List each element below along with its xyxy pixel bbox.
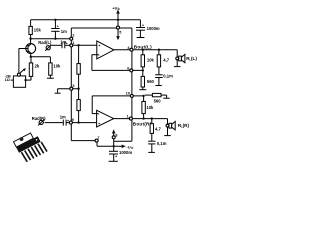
svg-text:b: b: [118, 7, 120, 11]
svg-text:9: 9: [72, 118, 74, 122]
ground (emitter resistor): [47, 77, 54, 79]
node collector line: [29, 38, 31, 40]
ground (zobel L): [155, 85, 161, 87]
svg-text:8: 8: [115, 133, 117, 137]
connector input L: [46, 46, 50, 50]
resistor 4,7 (zobel L): [158, 49, 160, 51]
wire supply branch left: [71, 27, 116, 29]
connector input R: [39, 120, 43, 124]
svg-text:-U: -U: [127, 146, 131, 150]
wire output R rail: [114, 118, 168, 120]
svg-text:2: 2: [72, 34, 74, 38]
IC package illustration: [14, 133, 48, 162]
svg-text:0,1m: 0,1m: [163, 73, 173, 78]
svg-text:7: 7: [97, 136, 99, 140]
ground (560 L): [139, 89, 146, 91]
svg-text:15k: 15k: [34, 27, 42, 32]
capacitor 1000m (bottom electrolytic): [113, 146, 115, 151]
resistor 10k (feedback L): [142, 49, 144, 51]
svg-text:1m: 1m: [60, 115, 66, 120]
svg-text:0,1m: 0,1m: [157, 141, 167, 146]
svg-text:3: 3: [72, 84, 74, 88]
ground (speaker L): [174, 66, 181, 68]
wire input L: [51, 44, 62, 46]
svg-text:560: 560: [147, 79, 155, 84]
wire left bus bottom: [71, 140, 95, 142]
wire input to op-amp 2: [72, 122, 98, 124]
capacitor 1m (rail decoupling electrolytic): [54, 19, 56, 21]
capacitor 1000m (top electrolytic): [139, 20, 141, 28]
supply arrow down (op-amp 1): [117, 29, 119, 37]
resistor 2k: [30, 57, 32, 63]
pin 4: [130, 48, 133, 51]
supply arrow up (op-amp 2) pin 8: [112, 129, 116, 133]
resistor bias lower: [77, 100, 80, 111]
wire -Ub line: [97, 145, 122, 147]
pin 1: [70, 44, 73, 47]
resistor 560 (feedback R horizontal): [142, 95, 144, 97]
pin 6: [130, 69, 133, 72]
wire +Ub top rail: [31, 19, 141, 21]
svg-text:Rad(L): Rad(L): [38, 40, 52, 45]
svg-text:1000m: 1000m: [119, 150, 132, 155]
ground (speaker R): [164, 135, 171, 137]
node emitter junction: [30, 56, 32, 58]
capacitor 0,1m (zobel R): [148, 140, 155, 142]
capacitor 1m (input R coupling): [62, 120, 64, 126]
wire op-amp2 feedback loop: [92, 113, 98, 115]
op-amp A1: [97, 41, 114, 59]
pin 10: [130, 94, 133, 97]
pin 5 supply terminal: [117, 20, 119, 26]
resistor 4,7 (zobel R): [151, 117, 153, 119]
potentiometer P1 (preset box): [18, 49, 20, 74]
svg-text:1000m: 1000m: [147, 26, 160, 31]
svg-text:(L): (L): [191, 56, 197, 61]
svg-text:5: 5: [119, 31, 121, 35]
svg-text:4,7: 4,7: [163, 58, 169, 63]
svg-text:4,7: 4,7: [155, 126, 161, 131]
svg-text:1m: 1m: [61, 29, 67, 34]
svg-text:(R): (R): [183, 123, 190, 128]
pin 11: [129, 117, 132, 120]
ground (560 R): [163, 97, 169, 99]
svg-text:1: 1: [127, 114, 129, 118]
ground (bottom electrolytic): [109, 160, 118, 162]
svg-text:6: 6: [127, 67, 129, 71]
ground (pin 3): [55, 92, 61, 94]
loudspeaker RL(L): [176, 50, 178, 67]
svg-text:10k: 10k: [146, 105, 154, 110]
svg-text:1m: 1m: [60, 40, 66, 45]
svg-text:2k: 2k: [35, 63, 40, 68]
wire output L rail: [114, 49, 177, 51]
wire op-amp1 feedback loop: [92, 54, 99, 56]
pin 7: [95, 139, 98, 142]
resistor bias upper: [78, 45, 80, 63]
svg-text:1Ω: 1Ω: [5, 78, 10, 82]
wire left bus vertical: [70, 28, 72, 141]
loudspeaker RL(R): [167, 119, 169, 136]
wire input to op-amp 1: [73, 44, 99, 46]
svg-text:10k: 10k: [147, 57, 155, 62]
ground (zobel R): [148, 151, 155, 153]
pin 3 ground wire: [58, 88, 79, 90]
wire input R: [45, 122, 64, 124]
svg-text:1: 1: [72, 41, 74, 45]
resistor 10k (feedback R): [143, 96, 145, 102]
node +Ub arrow: [117, 19, 119, 21]
resistor 10k (emitter load): [49, 57, 51, 63]
svg-text:Bout(R): Bout(R): [133, 122, 152, 127]
pin 2: [70, 37, 73, 40]
resistor 560 (feedback L): [141, 76, 144, 87]
svg-text:560: 560: [154, 98, 162, 103]
pin 9: [69, 121, 72, 124]
capacitor 0,1m (zobel L): [155, 74, 162, 76]
svg-text:10: 10: [126, 91, 130, 95]
capacitor 1m (input L coupling): [61, 42, 63, 48]
op-amp A2: [97, 110, 114, 127]
wire supply to IC bus: [120, 27, 132, 29]
ground (top electrolytic): [137, 37, 145, 39]
resistor 15k: [30, 20, 32, 27]
wire bus vertical: [131, 28, 133, 141]
svg-text:10k: 10k: [53, 63, 61, 68]
wire bus bottom corner: [114, 140, 132, 142]
transistor Q1: [26, 44, 36, 54]
